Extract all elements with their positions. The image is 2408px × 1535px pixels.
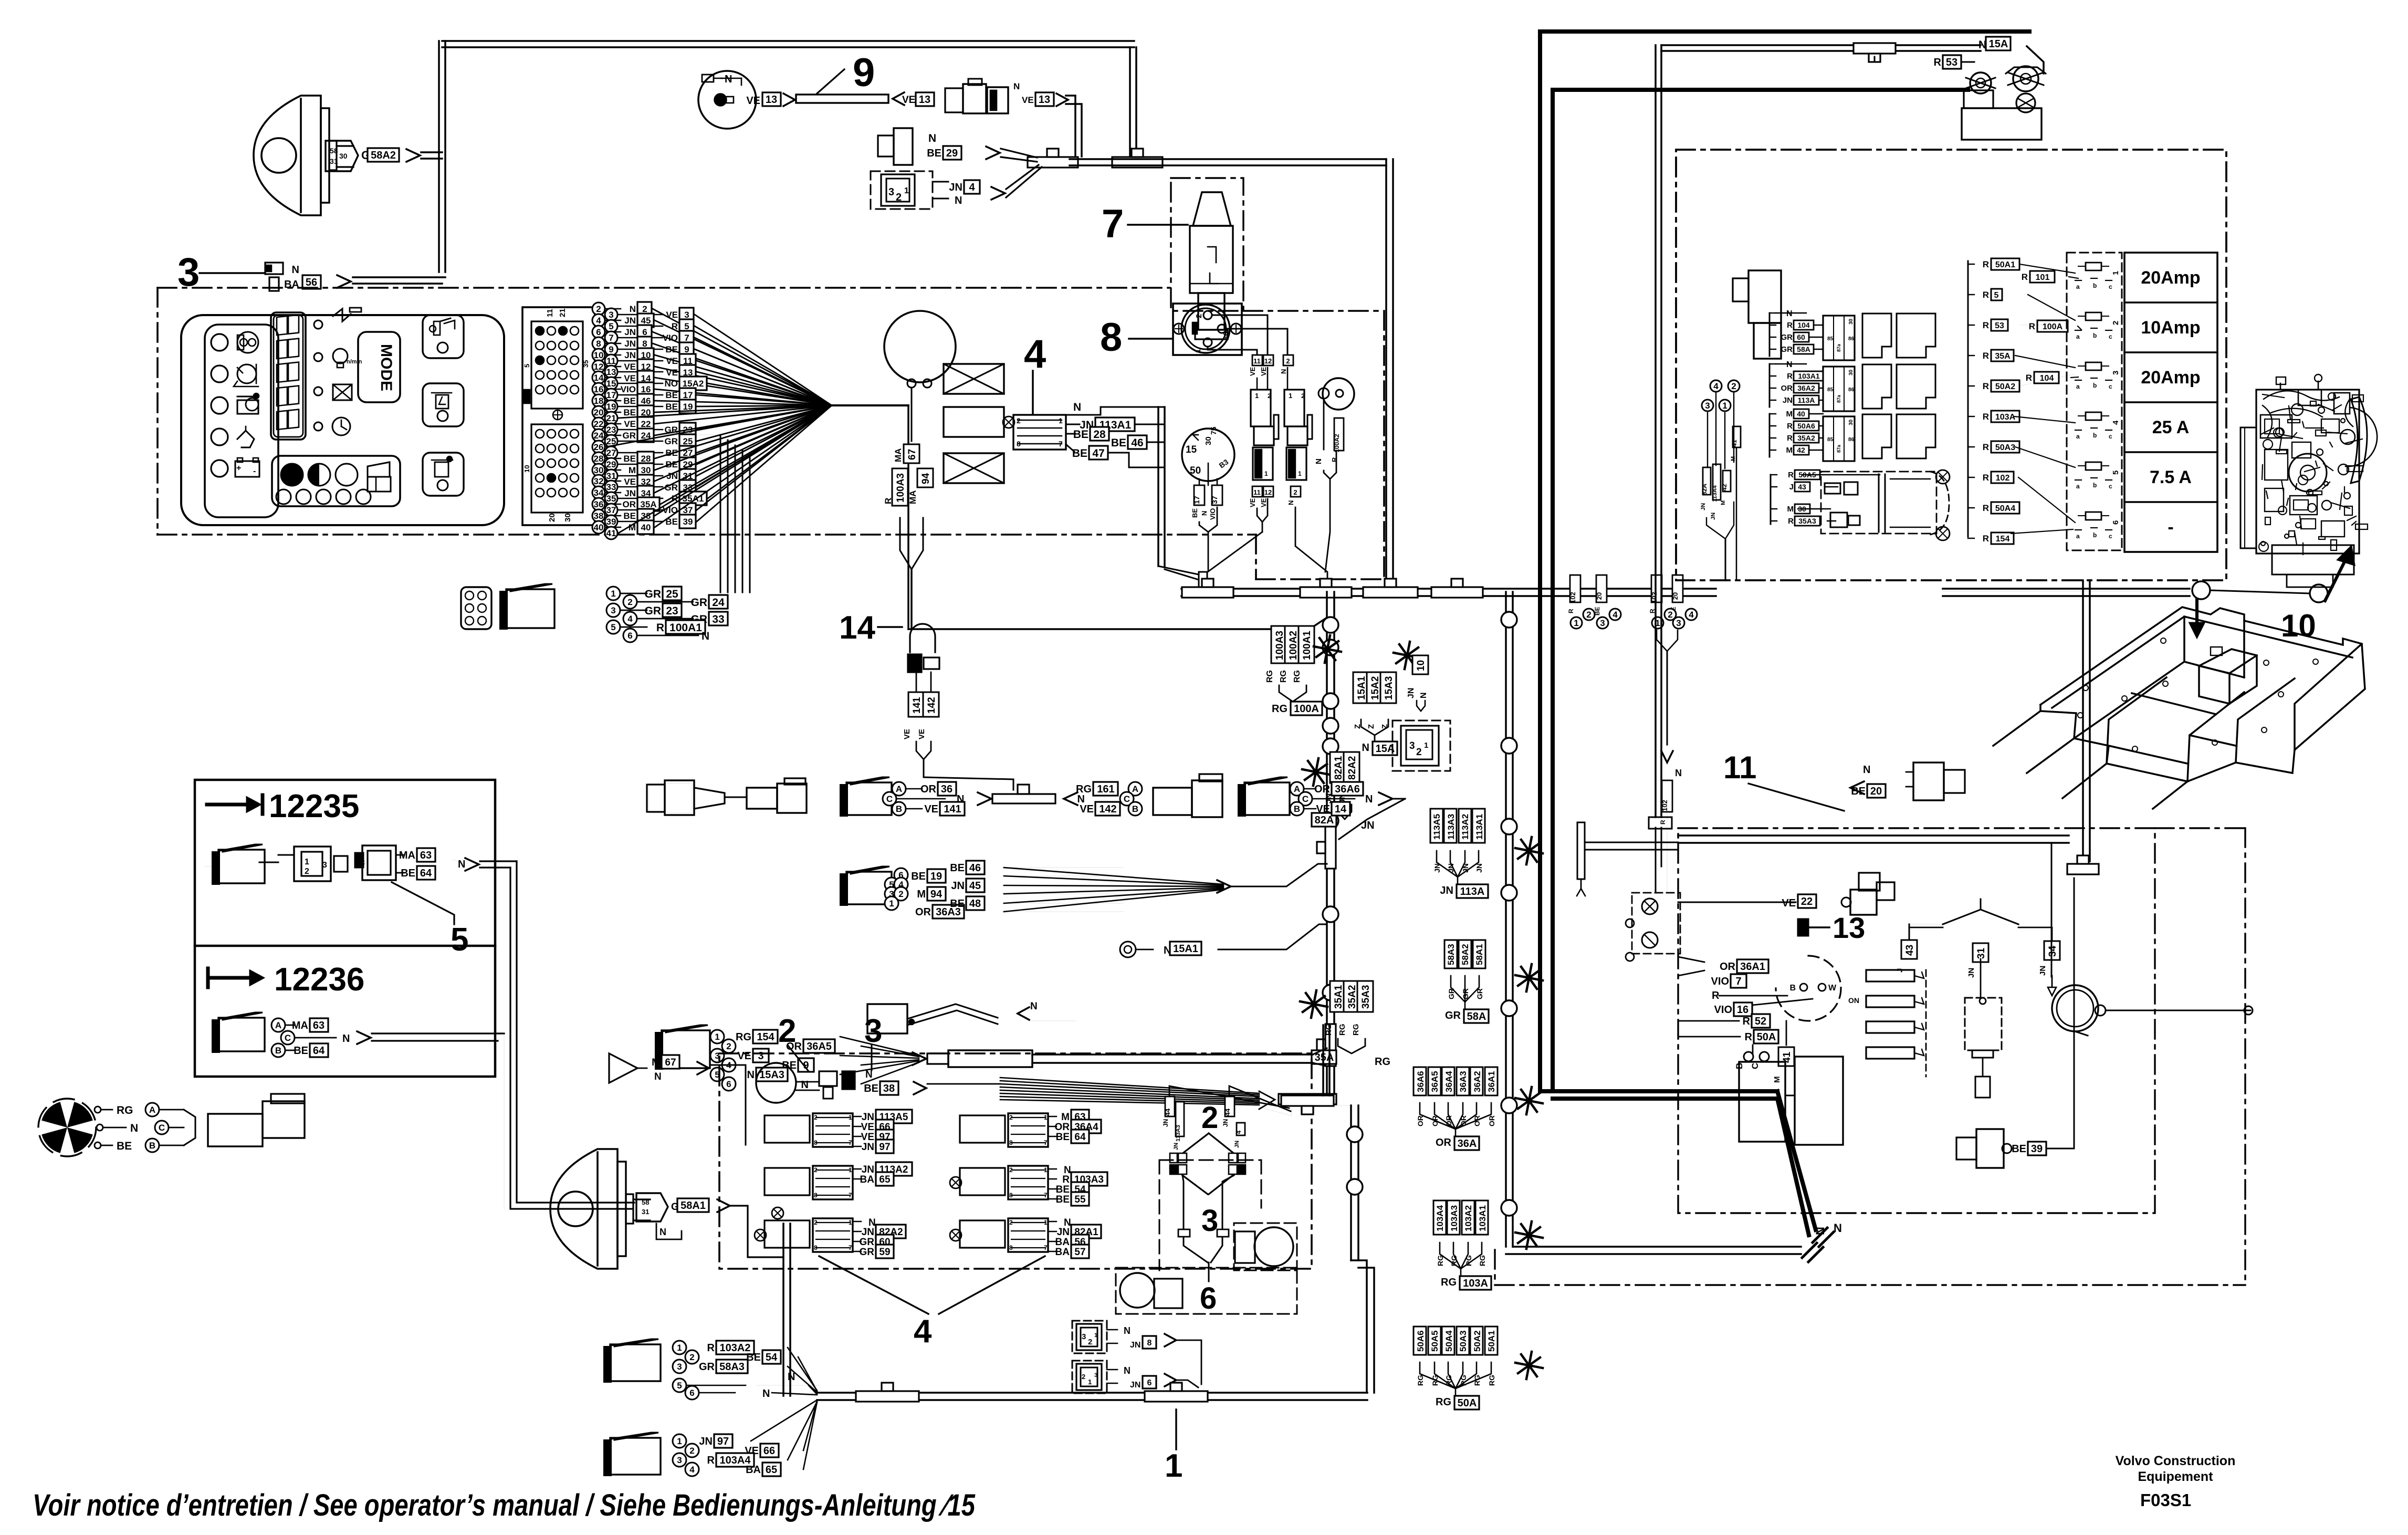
svg-text:154: 154	[757, 1031, 774, 1043]
svg-text:JN: JN	[1130, 1381, 1140, 1390]
svg-text:VE: VE	[902, 95, 915, 106]
svg-text:1: 1	[1722, 401, 1727, 411]
svg-text:GR: GR	[860, 1237, 875, 1248]
svg-text:GR: GR	[645, 588, 662, 600]
svg-text:B: B	[149, 1141, 155, 1151]
svg-text:R: R	[1787, 422, 1793, 431]
svg-text:48: 48	[969, 898, 981, 910]
svg-text:27: 27	[606, 448, 616, 458]
svg-text:103A: 103A	[1995, 413, 2016, 422]
svg-text:11: 11	[546, 309, 554, 317]
svg-text:RG: RG	[117, 1104, 133, 1116]
svg-text:20Amp: 20Amp	[2141, 368, 2200, 388]
svg-text:3: 3	[888, 186, 894, 198]
svg-text:1: 1	[889, 899, 894, 909]
svg-text:50A: 50A	[1757, 1031, 1776, 1043]
svg-text:6: 6	[1147, 1379, 1152, 1387]
svg-text:VE: VE	[1316, 803, 1330, 815]
svg-text:36A4: 36A4	[1444, 1071, 1454, 1092]
svg-text:R: R	[2026, 373, 2032, 383]
svg-text:A: A	[1132, 784, 1138, 794]
svg-text:JN: JN	[1440, 885, 1453, 896]
svg-text:36A2: 36A2	[1472, 1071, 1482, 1092]
svg-text:BA: BA	[1055, 1237, 1070, 1248]
svg-text:RG: RG	[1272, 703, 1287, 715]
svg-text:100A1: 100A1	[1302, 631, 1313, 660]
svg-text:50A1: 50A1	[1995, 260, 2015, 269]
svg-text:67: 67	[665, 1057, 676, 1068]
svg-text:Equipement: Equipement	[2138, 1469, 2213, 1484]
svg-text:R: R	[656, 622, 664, 634]
svg-text:35A3: 35A3	[1798, 517, 1816, 525]
svg-text:VE: VE	[746, 95, 760, 107]
svg-text:VE: VE	[624, 362, 636, 372]
svg-text:2: 2	[627, 597, 632, 607]
svg-text:VE: VE	[624, 373, 636, 383]
svg-text:1: 1	[305, 858, 309, 866]
svg-text:7: 7	[849, 1192, 852, 1199]
svg-text:36A5: 36A5	[1430, 1071, 1440, 1092]
svg-text:JN: JN	[862, 1112, 874, 1123]
svg-text:JN: JN	[1967, 968, 1976, 978]
svg-text:VIO: VIO	[1711, 976, 1729, 987]
svg-text:OR: OR	[915, 906, 931, 918]
svg-text:M: M	[1786, 446, 1793, 455]
svg-text:VE: VE	[917, 729, 926, 739]
svg-text:36A3: 36A3	[1458, 1071, 1468, 1092]
svg-text:50A4: 50A4	[1995, 504, 2015, 513]
svg-text:6: 6	[1200, 1281, 1217, 1315]
svg-text:b: b	[2093, 282, 2097, 289]
svg-text:103A1: 103A1	[1798, 372, 1819, 380]
svg-text:39: 39	[683, 517, 693, 527]
svg-text:JN: JN	[1130, 1341, 1140, 1350]
svg-text:17: 17	[683, 390, 693, 400]
svg-text:97: 97	[717, 1436, 729, 1447]
svg-text:50A3: 50A3	[1458, 1330, 1468, 1352]
svg-text:N: N	[865, 1069, 873, 1080]
svg-text:VE: VE	[861, 1132, 874, 1143]
svg-text:8: 8	[1100, 315, 1122, 360]
svg-text:2: 2	[814, 1219, 818, 1226]
svg-text:22: 22	[1801, 896, 1813, 907]
svg-text:BE: BE	[665, 344, 678, 354]
svg-text:36A5: 36A5	[807, 1041, 832, 1052]
svg-text:9: 9	[853, 50, 875, 95]
svg-text:19: 19	[930, 871, 942, 882]
svg-text:12235: 12235	[269, 788, 359, 824]
svg-text:1: 1	[1094, 1332, 1097, 1339]
svg-text:87a: 87a	[1836, 444, 1841, 453]
svg-text:GR: GR	[1445, 1010, 1461, 1021]
svg-text:5: 5	[677, 1381, 682, 1391]
svg-text:29: 29	[946, 148, 958, 159]
svg-text:2: 2	[1088, 1338, 1092, 1346]
svg-text:75: 75	[1209, 426, 1218, 435]
svg-text:BE: BE	[1056, 1194, 1070, 1205]
svg-text:58A3: 58A3	[1446, 944, 1456, 965]
svg-text:161: 161	[1097, 784, 1114, 795]
svg-text:15A3: 15A3	[1384, 676, 1395, 700]
svg-text:2: 2	[726, 1041, 731, 1051]
svg-text:VE: VE	[666, 356, 678, 366]
svg-text:BE: BE	[623, 396, 636, 406]
svg-text:20: 20	[1870, 786, 1882, 797]
svg-text:38: 38	[594, 511, 604, 521]
svg-text:50A: 50A	[1458, 1397, 1477, 1409]
svg-text:N: N	[762, 1388, 770, 1400]
svg-text:JN: JN	[1173, 1143, 1179, 1150]
svg-text:3: 3	[677, 1362, 682, 1372]
svg-text:a: a	[2076, 383, 2080, 390]
svg-text:MA: MA	[908, 490, 918, 504]
svg-text:MA: MA	[292, 1020, 308, 1031]
svg-text:2: 2	[778, 1013, 796, 1049]
svg-text:3: 3	[1705, 401, 1710, 411]
svg-text:3: 3	[360, 859, 365, 868]
svg-text:63: 63	[313, 1020, 324, 1031]
svg-text:2: 2	[689, 1446, 694, 1456]
svg-text:50: 50	[1190, 465, 1201, 476]
svg-text:R: R	[1787, 434, 1793, 443]
svg-text:36: 36	[941, 784, 952, 795]
svg-text:67: 67	[907, 449, 918, 460]
svg-text:8: 8	[1009, 1192, 1013, 1199]
svg-text:RG: RG	[1441, 1277, 1457, 1288]
svg-text:64: 64	[420, 868, 432, 879]
svg-text:B: B	[1789, 984, 1796, 993]
svg-text:N: N	[1013, 81, 1020, 91]
svg-text:59: 59	[879, 1247, 890, 1258]
svg-text:GR: GR	[699, 1361, 715, 1373]
svg-text:R: R	[1983, 320, 1989, 330]
svg-text:2: 2	[1293, 488, 1297, 496]
svg-text:+: +	[236, 464, 241, 473]
svg-text:R: R	[707, 1342, 715, 1354]
svg-text:1: 1	[677, 1343, 682, 1353]
svg-text:45: 45	[641, 316, 651, 326]
svg-text:RG: RG	[1478, 1255, 1486, 1266]
svg-text:31: 31	[1976, 947, 1987, 959]
svg-text:1: 1	[849, 1114, 852, 1121]
svg-text:4: 4	[1713, 381, 1719, 391]
svg-text:86: 86	[1848, 336, 1855, 342]
svg-text:JN: JN	[862, 1227, 874, 1238]
svg-text:104: 104	[2040, 374, 2054, 383]
svg-text:85: 85	[1827, 387, 1834, 393]
svg-text:65: 65	[766, 1464, 777, 1476]
svg-text:M: M	[629, 465, 636, 475]
svg-text:8: 8	[1009, 1244, 1013, 1251]
svg-text:R: R	[1983, 534, 1989, 544]
svg-text:VE: VE	[903, 729, 912, 739]
svg-text:b: b	[2093, 531, 2097, 539]
svg-text:5: 5	[611, 622, 615, 632]
svg-text:1: 1	[1165, 1448, 1182, 1484]
svg-text:N: N	[1287, 500, 1295, 505]
svg-text:N: N	[1814, 1227, 1827, 1235]
svg-text:58A3: 58A3	[719, 1361, 745, 1373]
svg-text:4: 4	[969, 182, 975, 193]
svg-text:N: N	[1280, 369, 1287, 374]
svg-text:14: 14	[594, 373, 604, 383]
svg-text:N: N	[1314, 458, 1323, 464]
svg-text:RG: RG	[1293, 670, 1302, 683]
svg-text:RG: RG	[1375, 1056, 1390, 1068]
svg-text:42: 42	[1797, 446, 1805, 454]
svg-text:47: 47	[1092, 447, 1104, 460]
svg-text:35A3: 35A3	[1360, 985, 1371, 1009]
svg-text:BE: BE	[2012, 1143, 2026, 1155]
svg-text:-: -	[253, 467, 256, 476]
svg-text:43: 43	[1904, 945, 1915, 956]
svg-text:60: 60	[1797, 333, 1805, 341]
svg-text:1: 1	[1255, 392, 1259, 400]
svg-text:33: 33	[712, 613, 724, 625]
svg-text:102: 102	[1650, 592, 1658, 603]
svg-text:113A5: 113A5	[1432, 814, 1442, 840]
svg-text:5: 5	[451, 922, 468, 958]
svg-text:b: b	[2093, 432, 2097, 439]
svg-text:46: 46	[1131, 437, 1143, 449]
svg-text:8: 8	[596, 339, 601, 349]
svg-text:50A3: 50A3	[1995, 443, 2015, 452]
svg-text:35: 35	[582, 360, 590, 368]
svg-text:N: N	[1365, 793, 1373, 805]
svg-text:4: 4	[914, 1313, 932, 1350]
svg-text:100A2: 100A2	[1333, 434, 1341, 453]
svg-text:N: N	[801, 1079, 809, 1091]
svg-text:5: 5	[2111, 471, 2120, 475]
svg-text:23: 23	[606, 425, 616, 435]
svg-text:2: 2	[642, 304, 647, 314]
svg-text:1: 1	[715, 1032, 719, 1042]
svg-text:10Amp: 10Amp	[2141, 318, 2200, 338]
svg-text:20Amp: 20Amp	[2141, 268, 2200, 288]
svg-text:103A1: 103A1	[1478, 1205, 1488, 1231]
svg-text:1: 1	[2111, 271, 2120, 275]
svg-text:J: J	[1896, 968, 1904, 973]
svg-text:JN: JN	[862, 1164, 874, 1175]
svg-text:6: 6	[642, 327, 647, 337]
svg-text:11: 11	[1723, 750, 1756, 785]
svg-text:A: A	[275, 1020, 281, 1030]
svg-text:46: 46	[641, 396, 651, 406]
svg-text:37: 37	[1210, 496, 1219, 504]
svg-text:RG: RG	[736, 1031, 751, 1043]
svg-text:M: M	[917, 889, 926, 900]
svg-text:2: 2	[1416, 747, 1422, 758]
svg-text:5: 5	[609, 321, 613, 331]
svg-text:12: 12	[594, 362, 604, 372]
svg-text:6: 6	[689, 1388, 694, 1398]
svg-text:56: 56	[306, 277, 317, 288]
svg-text:64: 64	[1074, 1132, 1086, 1143]
svg-text:58: 58	[642, 1198, 649, 1206]
svg-text:2: 2	[814, 1166, 818, 1174]
svg-text:13: 13	[1833, 911, 1865, 944]
svg-text:141: 141	[944, 803, 961, 815]
svg-text:7: 7	[1044, 1244, 1048, 1251]
svg-text:22: 22	[641, 419, 651, 429]
svg-text:RG: RG	[1488, 1375, 1496, 1386]
svg-text:4: 4	[627, 614, 633, 624]
svg-text:142: 142	[926, 697, 937, 714]
svg-text:20: 20	[548, 513, 557, 522]
svg-text:100A1: 100A1	[669, 622, 702, 634]
svg-text:13: 13	[1039, 94, 1050, 106]
svg-text:4: 4	[689, 1465, 695, 1475]
svg-text:BE: BE	[1056, 1184, 1070, 1195]
svg-text:12: 12	[1264, 357, 1272, 365]
svg-text:3: 3	[1676, 618, 1681, 628]
svg-text:11: 11	[1253, 488, 1261, 496]
svg-text:2: 2	[1195, 314, 1203, 318]
svg-text:82A2: 82A2	[1347, 756, 1358, 780]
svg-text:N: N	[1786, 360, 1793, 369]
svg-text:10: 10	[523, 465, 531, 473]
svg-text:113A4: 113A4	[1712, 485, 1718, 502]
svg-text:JN: JN	[862, 1142, 874, 1153]
svg-text:J: J	[1789, 483, 1794, 492]
svg-text:RG: RG	[1265, 670, 1274, 683]
svg-text:14: 14	[1335, 803, 1347, 815]
svg-text:N: N	[130, 1122, 138, 1134]
svg-text:R: R	[1659, 820, 1667, 824]
svg-text:OR: OR	[1436, 1137, 1452, 1148]
svg-text:N: N	[654, 1071, 662, 1082]
svg-text:15A1: 15A1	[1356, 676, 1367, 700]
svg-text:13: 13	[919, 94, 930, 106]
svg-text:VE: VE	[1249, 498, 1257, 507]
svg-text:87a: 87a	[1836, 394, 1841, 403]
svg-text:ON: ON	[1848, 996, 1859, 1005]
svg-text:85: 85	[1827, 336, 1834, 342]
svg-text:50A2: 50A2	[1472, 1330, 1482, 1352]
svg-text:BE: BE	[1111, 437, 1126, 449]
svg-text:VE: VE	[624, 419, 636, 429]
svg-text:R: R	[1787, 321, 1793, 330]
svg-text:c: c	[2109, 383, 2112, 390]
svg-text:VE: VE	[1260, 498, 1268, 507]
svg-text:R: R	[1788, 471, 1794, 479]
svg-text:N: N	[1073, 401, 1081, 413]
svg-text:35A: 35A	[1995, 352, 2011, 361]
svg-text:VE: VE	[1782, 897, 1796, 909]
svg-text:36A: 36A	[1458, 1138, 1477, 1150]
svg-text:JN: JN	[1783, 396, 1793, 405]
svg-text:N: N	[1362, 742, 1369, 754]
svg-text:M: M	[1061, 1112, 1070, 1123]
svg-text:15: 15	[1186, 444, 1197, 455]
svg-text:24: 24	[594, 431, 604, 441]
svg-text:66: 66	[763, 1445, 775, 1457]
svg-text:OR: OR	[1055, 1122, 1070, 1133]
svg-text:BA: BA	[860, 1174, 875, 1185]
svg-text:7: 7	[1735, 976, 1741, 987]
svg-text:20: 20	[1671, 592, 1679, 600]
svg-text:154: 154	[1996, 535, 2010, 544]
svg-text:41: 41	[606, 528, 616, 538]
svg-text:3: 3	[2111, 371, 2120, 375]
svg-text:113A3: 113A3	[1175, 1125, 1181, 1142]
svg-text:JN: JN	[699, 1436, 713, 1447]
svg-text:JN: JN	[624, 316, 636, 326]
svg-text:C: C	[886, 794, 893, 804]
svg-text:1: 1	[1194, 349, 1202, 353]
svg-text:50A1: 50A1	[1486, 1330, 1496, 1352]
svg-text:50A6: 50A6	[1416, 1330, 1426, 1352]
svg-text:25: 25	[683, 436, 693, 446]
svg-text:JN: JN	[1710, 513, 1716, 520]
svg-text:M: M	[652, 1057, 660, 1068]
svg-text:25 A: 25 A	[2152, 417, 2190, 437]
svg-text:2: 2	[1586, 610, 1591, 620]
svg-text:16: 16	[641, 384, 651, 394]
svg-text:30: 30	[1848, 318, 1854, 325]
svg-text:58A1: 58A1	[680, 1200, 706, 1212]
svg-text:13: 13	[766, 94, 777, 106]
svg-text:50A6: 50A6	[1797, 422, 1815, 430]
svg-text:53: 53	[1946, 57, 1957, 68]
svg-text:R: R	[1787, 372, 1793, 381]
svg-text:c: c	[2109, 483, 2112, 490]
svg-text:C: C	[1124, 794, 1130, 804]
svg-text:4: 4	[1613, 610, 1618, 620]
svg-text:14: 14	[839, 610, 875, 646]
svg-text:VE: VE	[861, 1122, 874, 1133]
svg-text:a: a	[2076, 483, 2080, 490]
svg-text:JN: JN	[949, 182, 962, 193]
svg-text:N: N	[928, 132, 936, 144]
svg-text:2: 2	[1731, 381, 1736, 391]
svg-text:103A2: 103A2	[1463, 1205, 1473, 1231]
svg-text:M: M	[1720, 500, 1726, 505]
svg-text:40: 40	[1797, 410, 1805, 418]
svg-text:W: W	[1828, 984, 1837, 993]
svg-text:R: R	[1567, 609, 1575, 613]
svg-text:N: N	[725, 74, 732, 85]
svg-text:28: 28	[641, 454, 651, 464]
svg-text:3: 3	[684, 310, 689, 320]
svg-text:35: 35	[606, 494, 616, 504]
svg-text:N: N	[1675, 768, 1682, 778]
svg-text:36A2: 36A2	[1797, 384, 1815, 392]
svg-text:VE: VE	[1022, 95, 1034, 105]
svg-text:7: 7	[849, 1244, 852, 1251]
svg-text:1: 1	[904, 186, 909, 195]
svg-text:12236: 12236	[274, 962, 364, 998]
svg-text:GR: GR	[645, 605, 662, 617]
svg-text:BE: BE	[864, 1083, 878, 1094]
svg-text:N: N	[342, 1033, 350, 1045]
svg-text:A: A	[149, 1105, 155, 1115]
svg-text:2: 2	[1017, 416, 1021, 425]
svg-text:VE: VE	[1080, 803, 1094, 815]
svg-text:1: 1	[1044, 1219, 1048, 1226]
svg-text:OR: OR	[1488, 1115, 1496, 1126]
svg-text:N: N	[747, 1069, 755, 1081]
svg-text:8: 8	[1009, 1139, 1013, 1146]
svg-text:30: 30	[563, 513, 572, 522]
svg-text:A: A	[1294, 784, 1300, 794]
svg-text:4: 4	[596, 316, 601, 326]
svg-text:10: 10	[1416, 660, 1427, 671]
svg-text:11: 11	[606, 356, 616, 366]
svg-text:53: 53	[1995, 321, 2004, 330]
svg-text:30: 30	[339, 152, 348, 160]
svg-text:36: 36	[594, 499, 604, 509]
